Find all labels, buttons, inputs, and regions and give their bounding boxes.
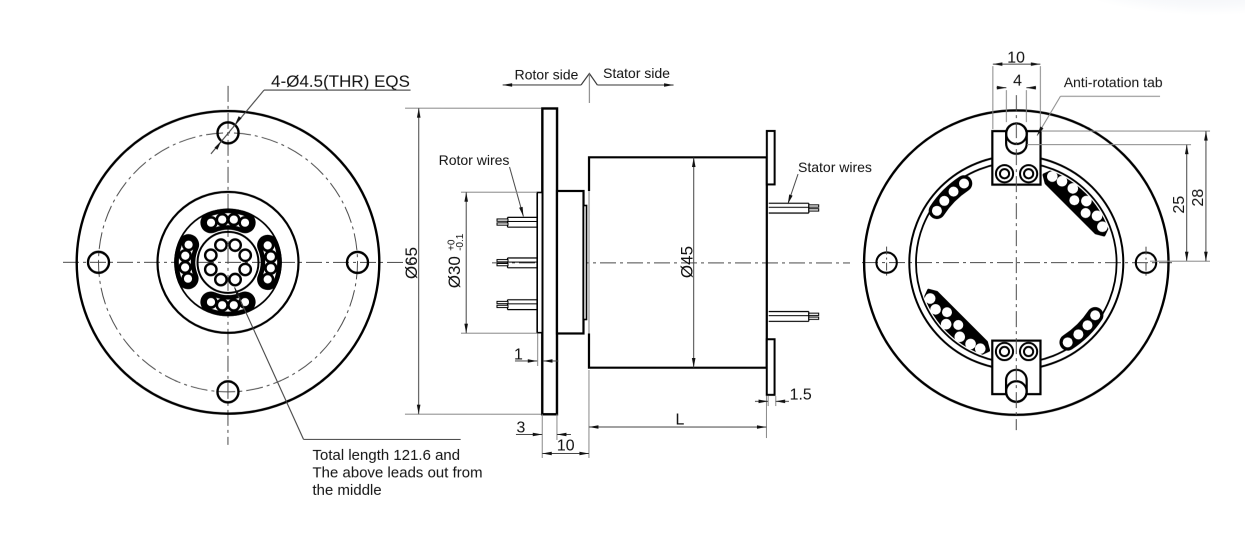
svg-text:10: 10 <box>1007 50 1025 67</box>
svg-text:3: 3 <box>516 419 525 436</box>
dim 25 <box>1027 145 1191 262</box>
svg-text:Ø45: Ø45 <box>677 246 696 278</box>
dim 28 <box>1041 131 1210 261</box>
stator tab bottom (side) <box>767 339 775 395</box>
ring outer circle <box>909 156 1123 370</box>
svg-text:Rotor side: Rotor side <box>515 66 579 82</box>
svg-text:Ø65: Ø65 <box>402 247 421 279</box>
wire-hole capsule right (left view) <box>259 237 279 288</box>
outer circle (right) <box>864 110 1169 415</box>
centerline horizontal (left view) <box>63 261 415 263</box>
rotor side / stator side header <box>503 65 674 103</box>
wire-hole capsule left (left view) <box>176 236 196 286</box>
svg-text:L: L <box>675 411 684 428</box>
note leader (total length) <box>234 287 460 439</box>
stator body D45 <box>589 157 767 367</box>
rotor wires label <box>439 152 524 217</box>
wire pill SE (right view) <box>1068 315 1096 342</box>
wire pill NW (right view) <box>937 184 964 211</box>
svg-text:Stator wires: Stator wires <box>798 159 872 175</box>
note text <box>312 447 482 499</box>
svg-text:the middle: the middle <box>312 482 381 499</box>
wire-hole capsule top (left view) <box>203 211 254 231</box>
rotor wire 2 <box>508 257 538 259</box>
inner ring of 8 contact holes <box>240 250 251 261</box>
rotor wire 1 <box>508 216 538 218</box>
stator wire 2 <box>769 311 809 313</box>
hub step <box>583 205 586 319</box>
svg-text:28: 28 <box>1190 189 1207 207</box>
svg-text:Total length 121.6 and: Total length 121.6 and <box>312 447 460 464</box>
svg-text:Stator side: Stator side <box>603 65 670 81</box>
side hole right <box>1136 252 1156 272</box>
dim 1 <box>514 333 559 366</box>
dim D65 <box>402 108 541 414</box>
centerline horizontal (middle view) <box>492 262 850 264</box>
dim 10 (middle) <box>542 370 589 458</box>
stator wires label <box>788 159 872 204</box>
bolt hole bottom <box>217 381 238 402</box>
svg-text:10: 10 <box>557 437 575 454</box>
ring inner circle <box>916 162 1117 363</box>
dim 3 <box>516 414 571 440</box>
svg-text:The above leads out from: The above leads out from <box>312 464 482 481</box>
dim L <box>589 396 767 438</box>
hub block <box>557 191 584 334</box>
svg-text:1.5: 1.5 <box>790 387 812 404</box>
dim D45 <box>677 158 696 368</box>
wire bean SW (right view) <box>926 290 989 353</box>
svg-text:Rotor wires: Rotor wires <box>439 152 510 168</box>
anti-rotation tab label <box>1037 74 1163 136</box>
right view: stator end <box>862 110 1172 415</box>
anti-rotation tab bottom <box>992 341 1040 402</box>
hub outer circle D30 <box>157 192 298 333</box>
rotor plate D30 <box>537 192 542 332</box>
hub middle circle <box>175 209 281 315</box>
leader 4-D4.5 <box>211 72 411 154</box>
svg-text:Anti-rotation tab: Anti-rotation tab <box>1064 74 1163 90</box>
svg-text:Ø30: Ø30 <box>445 256 464 288</box>
bolt hole top <box>218 122 239 143</box>
svg-text:4: 4 <box>1013 73 1022 90</box>
centerline horizontal (right view) <box>862 262 1172 264</box>
wire bean NE (right view) <box>1044 172 1107 235</box>
svg-text:1: 1 <box>514 346 523 363</box>
corner shading <box>1045 0 1245 40</box>
dim 4 (right view) <box>997 73 1037 123</box>
svg-text:-0.1: -0.1 <box>455 233 466 251</box>
stator tab top (side) <box>767 131 775 185</box>
bolt circle dash-dot <box>98 133 357 392</box>
hub inner circle <box>197 232 258 293</box>
dim 1.5 <box>755 387 812 407</box>
centerline vertical (right view) <box>1015 95 1017 430</box>
rotor wire 3 <box>507 299 537 301</box>
centerline vertical (left view) <box>227 86 229 445</box>
flange plate (side) <box>542 108 557 414</box>
left view: front flange <box>63 86 415 445</box>
bolt hole left <box>88 252 109 273</box>
flange outer circle D65 <box>77 111 380 414</box>
anti-rotation tab top <box>992 123 1040 184</box>
middle view: section <box>492 108 850 414</box>
wire-hole capsule bottom (left view) <box>203 294 254 314</box>
svg-text:4-Ø4.5(THR) EQS: 4-Ø4.5(THR) EQS <box>271 72 410 91</box>
dim 10 (right view) <box>993 50 1041 130</box>
dim D30 +0/-0.1 <box>445 192 537 333</box>
bolt hole right <box>347 252 368 273</box>
side hole left <box>876 252 896 272</box>
svg-text:25: 25 <box>1171 196 1188 214</box>
stator wire 1 <box>769 202 809 204</box>
